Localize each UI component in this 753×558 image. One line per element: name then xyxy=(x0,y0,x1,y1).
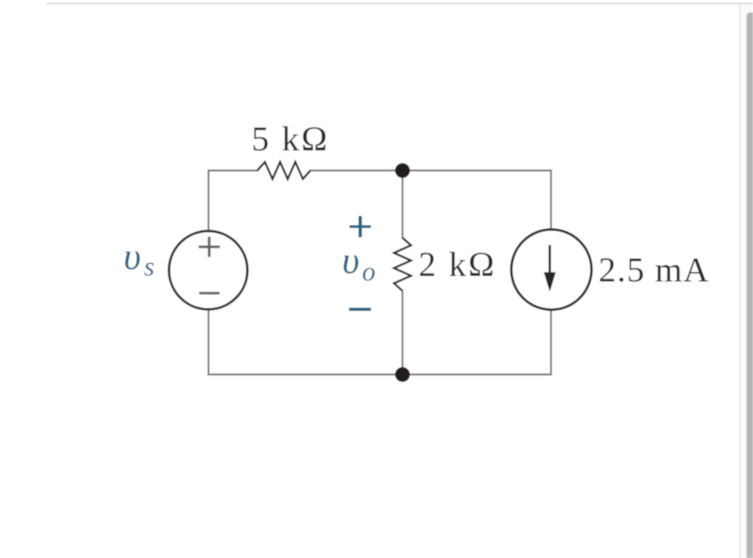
current source IS circle xyxy=(511,230,591,310)
current source arrow xyxy=(544,245,556,292)
wire: middle vertical lower (resistor R2 to node B) xyxy=(402,291,404,375)
svg-text:5 kΩ: 5 kΩ xyxy=(252,120,330,159)
top border rule xyxy=(47,3,753,5)
scrollbar track border xyxy=(739,5,740,558)
svg-text:2 kΩ: 2 kΩ xyxy=(419,245,497,284)
voltage source VS circle xyxy=(169,231,247,309)
wire: top right horizontal (resistor to node A and current source) xyxy=(310,170,552,172)
resistor R2 2 kΩ (vertical zigzag) xyxy=(394,238,411,291)
voltage source plus sign xyxy=(199,237,220,257)
svg-text:2.5 mA: 2.5 mA xyxy=(599,251,710,290)
wire: right vertical upper (top wire to current source) xyxy=(550,170,552,231)
wire: right vertical lower (current source to bottom wire) xyxy=(550,310,552,376)
scrollbar thumb xyxy=(747,13,753,558)
voltage source minus sign xyxy=(199,292,219,295)
node B junction dot (bottom) xyxy=(395,367,410,382)
output voltage minus sign (blue) xyxy=(349,308,371,311)
wire: left vertical upper (vs to top wire) xyxy=(208,170,210,232)
wire: middle vertical upper (node A to resistor R2) xyxy=(402,171,404,239)
wire: left vertical lower (vs to bottom wire) xyxy=(208,310,210,376)
node A junction dot (top) xyxy=(395,163,410,178)
scrollbar track xyxy=(741,5,753,558)
wire: bottom horizontal xyxy=(208,374,552,376)
wire: top left horizontal (vs top to resistor) xyxy=(208,170,258,172)
output voltage plus sign (blue) xyxy=(350,216,372,237)
resistor R1 5 kΩ (horizontal zigzag) xyxy=(257,162,310,179)
